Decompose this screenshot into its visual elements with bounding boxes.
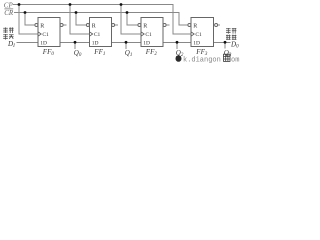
svg-text:C1: C1 — [195, 32, 202, 38]
svg-text:CR: CR — [4, 9, 14, 17]
svg-text:k.diangon: k.diangon — [183, 56, 221, 64]
svg-text:R: R — [143, 23, 147, 29]
svg-text:R: R — [92, 23, 96, 29]
svg-text:R: R — [40, 23, 44, 29]
svg-text:C1: C1 — [94, 32, 101, 38]
svg-text:1D: 1D — [193, 41, 200, 47]
svg-text:om: om — [231, 56, 239, 64]
svg-text:1D: 1D — [143, 41, 150, 47]
svg-text:C1: C1 — [42, 32, 49, 38]
svg-text:1D: 1D — [92, 41, 99, 47]
svg-text:R: R — [193, 23, 197, 29]
svg-text:C1: C1 — [145, 32, 152, 38]
svg-text:1D: 1D — [40, 41, 47, 47]
